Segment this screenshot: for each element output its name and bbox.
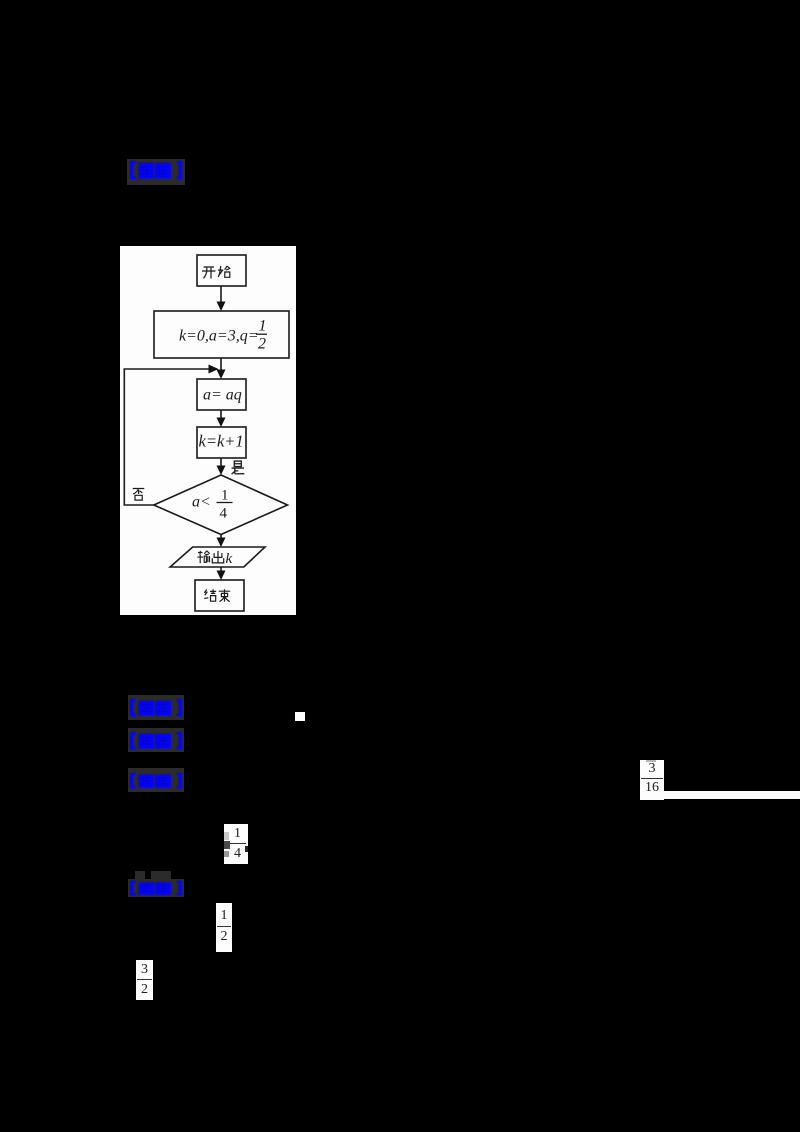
svg-text:a<: a< [192,494,211,511]
highlight box 分析 [128,768,184,792]
fraction 1/2 [216,903,232,952]
init box [154,311,289,358]
svg-text:4: 4 [220,506,228,522]
svg-text:k=k+1: k=k+1 [199,432,244,451]
highlight box 考点 [128,695,184,720]
arrow lines [220,286,222,302]
decision diamond [154,475,288,535]
highlight box behind label 1 [127,159,185,185]
highlight box 解答 [135,871,145,880]
label 【解答】 [128,880,183,896]
fraction 3/2 [136,960,153,1000]
svg-text:a= aq: a= aq [203,387,242,404]
glyph 出 [212,551,223,563]
glyph 否 [133,489,145,501]
svg-text:k=0,a=3,q=: k=0,a=3,q= [179,328,259,345]
start box 开始 [197,255,246,286]
highlight box 专题 [128,728,184,752]
glyph 始 [218,266,230,277]
glyph 开 [202,267,216,279]
glyph 束 [219,589,230,601]
glyph 结 [204,589,216,601]
init text k=0,a=3,q=1/2 [179,318,267,353]
loop wire [124,369,209,505]
svg-text:k: k [226,551,233,567]
label 【考点】 [128,698,183,717]
fraction ≤1/4 [224,824,248,864]
white dot [295,712,305,721]
svg-text:2: 2 [258,336,266,353]
svg-text:1: 1 [221,488,229,504]
glyph 是 [232,461,245,474]
svg-text:1: 1 [259,318,267,335]
k=k+1 box [197,427,246,458]
glyph 输 [197,551,209,563]
a=aq box [197,379,246,410]
flowchart panel [120,246,296,615]
end box 结束 [195,580,244,611]
label 【专题】 [128,731,183,750]
label 【点评】 [128,160,183,180]
label 【分析】 [128,772,183,789]
output parallelogram 输出k [170,547,265,567]
fraction 3/16 [640,760,664,800]
